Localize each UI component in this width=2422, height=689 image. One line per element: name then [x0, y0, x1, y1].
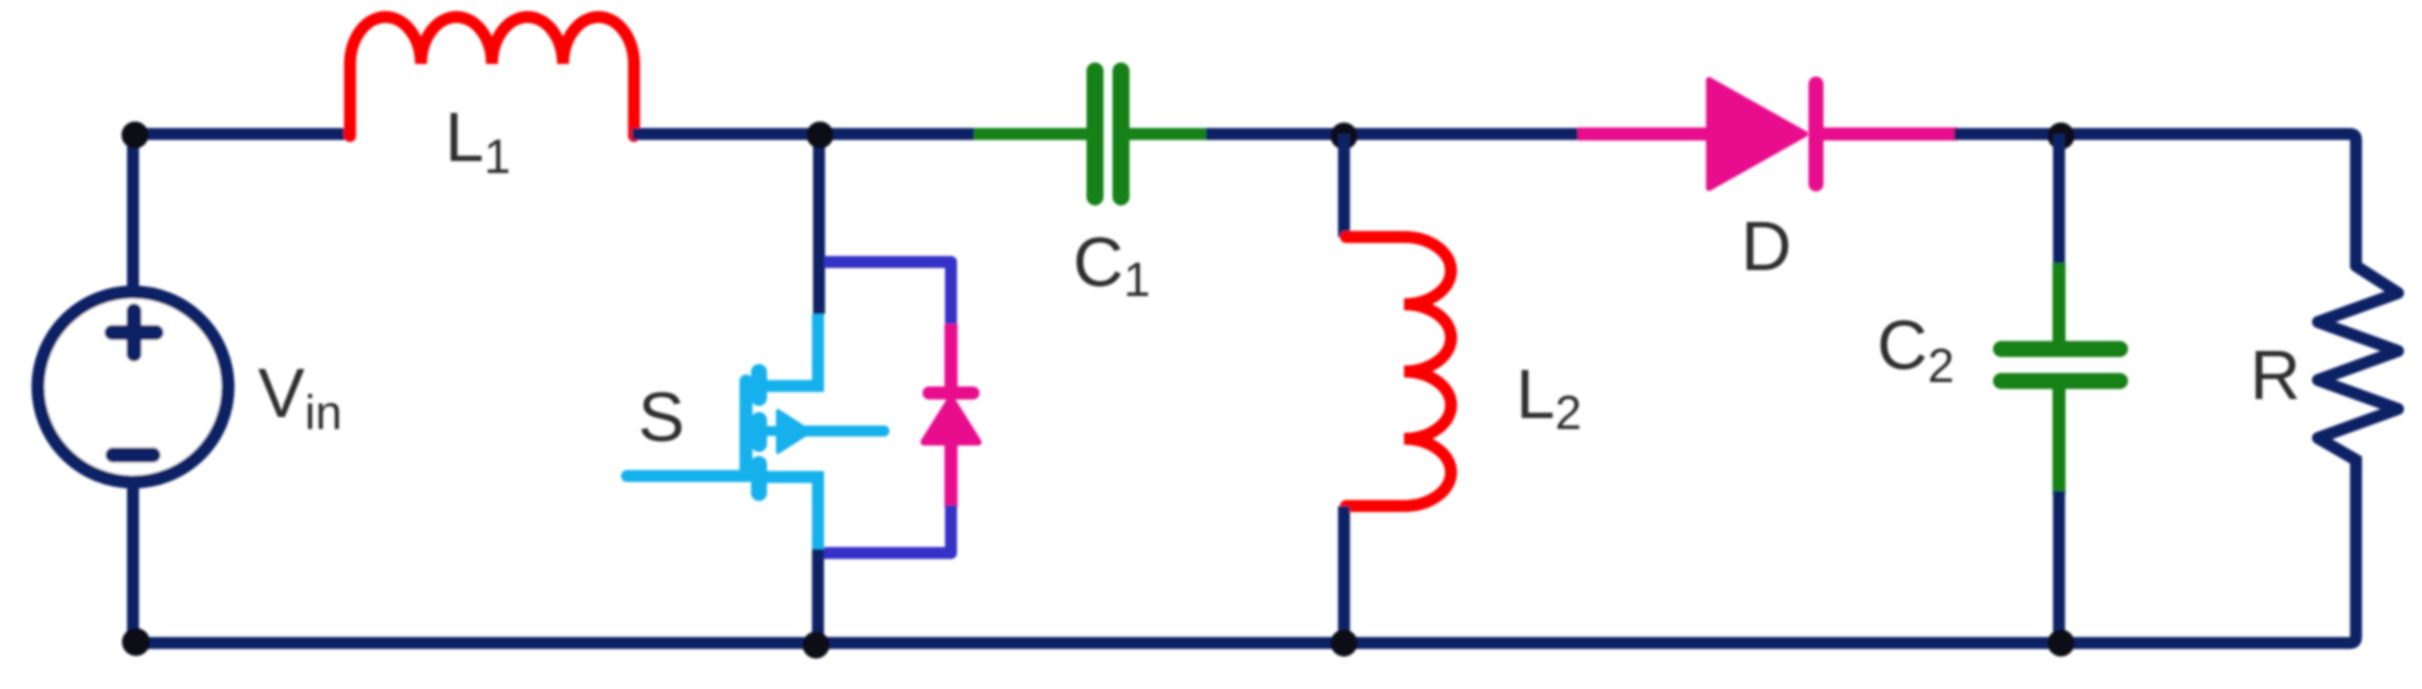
junction dot source left top [122, 122, 149, 149]
label L2 [1516, 355, 1582, 440]
junction dot switch bottom [803, 632, 830, 659]
inductor L1 [350, 17, 634, 136]
wire body diode upper (violet) [824, 262, 951, 330]
wire L2 upper lead [1338, 134, 1350, 237]
junction dot source left bottom [122, 628, 150, 656]
wire C2 lower lead [2053, 491, 2065, 643]
junction dot output top [2048, 123, 2075, 150]
body diode of S [924, 324, 978, 508]
mosfet S [746, 314, 884, 551]
label C1 [1073, 223, 1150, 307]
wire switch drain (navy upper) [813, 134, 825, 314]
capacitor C2 [2001, 263, 2120, 495]
mosfet S gate lead [627, 470, 758, 482]
capacitor C1 [974, 71, 1210, 197]
inductor L2 [1346, 237, 1451, 506]
label C2 [1877, 306, 1954, 393]
wire diode to output node and top right corner to R [1954, 134, 2356, 268]
svg-text:C1: C1 [1073, 223, 1150, 307]
junction dot output bottom [2048, 630, 2075, 657]
diode D cathode lead [1820, 128, 1958, 141]
resistor R [2318, 266, 2398, 460]
wire switch source (navy lower) [812, 549, 824, 643]
svg-text:S: S [638, 378, 685, 456]
wire body diode lower (violet) [824, 505, 951, 553]
wire R bottom and bottom rail [133, 456, 2356, 643]
voltage source Vin [38, 292, 228, 482]
diode D anode lead [1578, 128, 1712, 141]
label Vin [258, 354, 342, 440]
junction dot L2 bottom [1331, 630, 1358, 657]
svg-text:L2: L2 [1516, 355, 1582, 440]
wire C1 to L2 node [1206, 128, 1584, 140]
wire L2 lower lead [1338, 506, 1350, 643]
junction dot L2 top [1331, 123, 1358, 150]
label D [1741, 207, 1792, 285]
wire C2 upper lead [2053, 134, 2065, 267]
diode D [1709, 80, 1816, 188]
svg-text:L1: L1 [445, 98, 511, 184]
wire source bottom to bottom rail [127, 485, 139, 643]
label R [2250, 336, 2301, 414]
junction dot switch top [807, 122, 834, 149]
label S [638, 378, 685, 456]
svg-text:R: R [2250, 336, 2301, 414]
svg-text:D: D [1741, 207, 1792, 285]
svg-text:C2: C2 [1877, 306, 1954, 393]
wire top middle L1 to C1 [632, 128, 978, 140]
svg-text:Vin: Vin [258, 354, 342, 440]
label L1 [445, 98, 511, 184]
wire top-left from source to L1 [133, 134, 352, 290]
